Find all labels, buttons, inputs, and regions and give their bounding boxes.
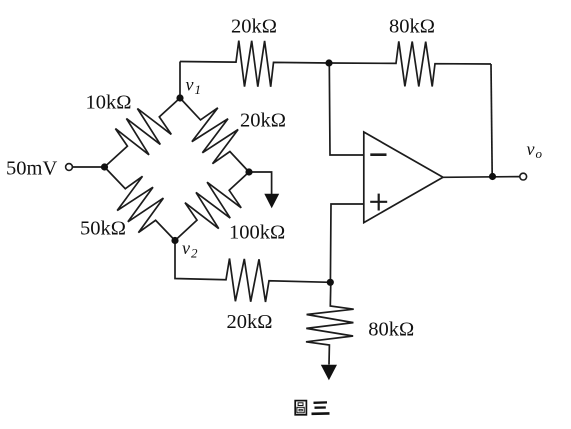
op-amp plus sign bbox=[370, 194, 387, 211]
wire right bridge node to ground bbox=[249, 172, 272, 194]
node dot output junction bbox=[489, 173, 496, 180]
wire v1 stem up bbox=[179, 62, 181, 99]
wire inverting input bbox=[329, 63, 364, 155]
caption figure three (CJK drawn as strokes) bbox=[295, 401, 329, 415]
svg-text:v: v bbox=[527, 139, 535, 159]
resistor 20k (bridge upper-right arm) bbox=[180, 98, 249, 172]
op-amp U1 triangle bbox=[364, 132, 443, 223]
svg-text:10kΩ: 10kΩ bbox=[86, 92, 132, 114]
wire source to left bridge node bbox=[73, 166, 105, 168]
svg-text:80kΩ: 80kΩ bbox=[368, 318, 414, 340]
node dot top junction bbox=[325, 59, 332, 66]
svg-text:20kΩ: 20kΩ bbox=[240, 110, 286, 132]
svg-text:1: 1 bbox=[195, 82, 202, 97]
resistor 10k (bridge upper-left arm) bbox=[105, 98, 181, 167]
resistor 20k top (with leads) bbox=[180, 41, 329, 87]
node dot bottom junction bbox=[327, 279, 334, 286]
wire feedback right side down bbox=[491, 64, 492, 177]
op-amp minus sign bbox=[370, 153, 386, 156]
resistor 50k (bridge lower-left arm) bbox=[105, 167, 176, 241]
node dot v1 bbox=[176, 94, 183, 101]
svg-text:2: 2 bbox=[191, 246, 198, 261]
svg-text:80kΩ: 80kΩ bbox=[389, 16, 435, 38]
ground symbol right of bridge bbox=[264, 194, 279, 208]
resistor 80k bottom vertical (with leads) bbox=[306, 282, 354, 364]
svg-text:100kΩ: 100kΩ bbox=[229, 221, 285, 243]
svg-text:50mV: 50mV bbox=[6, 157, 57, 179]
svg-text:v: v bbox=[186, 75, 194, 95]
node dot right bridge bbox=[245, 168, 252, 175]
terminal circle output vo bbox=[520, 173, 527, 180]
ground symbol below 80k bbox=[321, 365, 337, 380]
terminal circle 50mV source bbox=[66, 164, 73, 171]
svg-text:50kΩ: 50kΩ bbox=[80, 218, 126, 240]
svg-text:20kΩ: 20kΩ bbox=[231, 16, 277, 38]
wire op-amp output bbox=[443, 176, 520, 179]
svg-text:20kΩ: 20kΩ bbox=[227, 311, 273, 333]
resistor 80k top feedback (with leads) bbox=[329, 41, 491, 86]
resistor 100k (bridge lower-right arm) bbox=[175, 172, 249, 241]
wire v2 to bottom 20k and resistor 20k bottom bbox=[175, 241, 330, 303]
node dot v2 bbox=[171, 237, 178, 244]
svg-text:o: o bbox=[536, 146, 543, 161]
wire noninverting input bbox=[330, 204, 363, 282]
node dot left bridge bbox=[101, 163, 108, 170]
svg-text:v: v bbox=[182, 238, 190, 258]
